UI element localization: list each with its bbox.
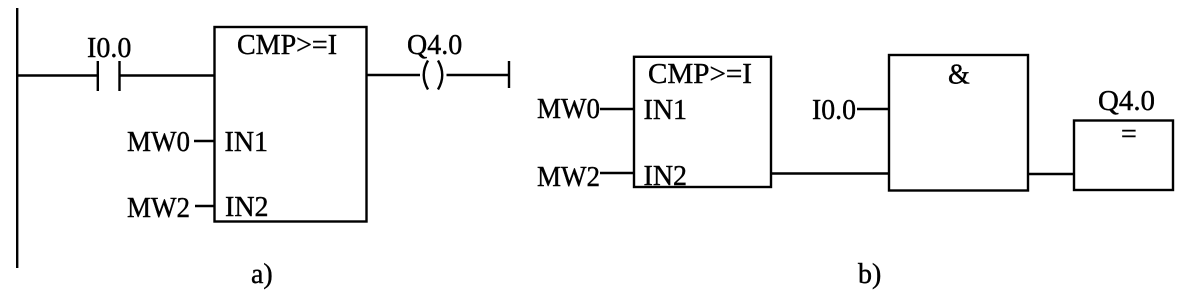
svg-text:a): a) — [251, 259, 273, 290]
wire I0.0 to AND gate (b) — [857, 108, 889, 110]
svg-text:&: & — [948, 60, 970, 91]
right rail end bar — [508, 61, 510, 88]
assign coil box = (b) — [1074, 121, 1173, 191]
svg-text:CMP>=I: CMP>=I — [648, 59, 752, 90]
svg-text:I0.0: I0.0 — [87, 33, 131, 64]
contact I0.0 right bar — [118, 61, 120, 91]
power rail (left vertical rail, ladder a) — [16, 8, 18, 268]
contact I0.0 left bar — [97, 61, 99, 91]
svg-text:Q4.0: Q4.0 — [407, 30, 462, 61]
wire comparator box to coil Q4.0 — [367, 74, 421, 76]
comparator box CMP>=I (b) — [634, 57, 771, 187]
svg-text:Q4.0: Q4.0 — [1098, 86, 1155, 117]
wire coil to right rail end — [447, 74, 510, 76]
svg-text:CMP>=I: CMP>=I — [237, 30, 337, 61]
svg-text:MW0: MW0 — [127, 127, 190, 158]
svg-text:MW2: MW2 — [127, 193, 190, 224]
svg-text:IN2: IN2 — [644, 161, 688, 192]
svg-text:IN1: IN1 — [225, 127, 269, 158]
coil Q4.0 left parenthesis — [424, 61, 428, 90]
wire MW0 to pin IN1 (b) — [600, 108, 634, 110]
svg-text:IN1: IN1 — [644, 95, 688, 126]
wire MW2 to pin IN2 (a) — [195, 205, 215, 207]
wire contact to comparator box (a) — [120, 74, 215, 76]
svg-text:b): b) — [858, 259, 881, 290]
svg-text:=: = — [1121, 119, 1137, 150]
AND gate box & (b) — [889, 55, 1028, 191]
wire MW0 to pin IN1 (a) — [194, 140, 215, 142]
wire MW2 to pin IN2 (b) — [600, 172, 634, 174]
svg-text:I0.0: I0.0 — [812, 95, 856, 126]
comparator box CMP>=I (a) — [215, 27, 367, 222]
wire AND gate to assign box (b) — [1028, 173, 1074, 175]
svg-text:MW0: MW0 — [537, 94, 600, 125]
wire rail to contact — [16, 74, 97, 76]
wire comparator output to AND gate (b) — [771, 172, 889, 174]
coil Q4.0 right parenthesis — [438, 61, 442, 90]
svg-text:MW2: MW2 — [537, 162, 600, 193]
svg-text:IN2: IN2 — [225, 192, 269, 223]
